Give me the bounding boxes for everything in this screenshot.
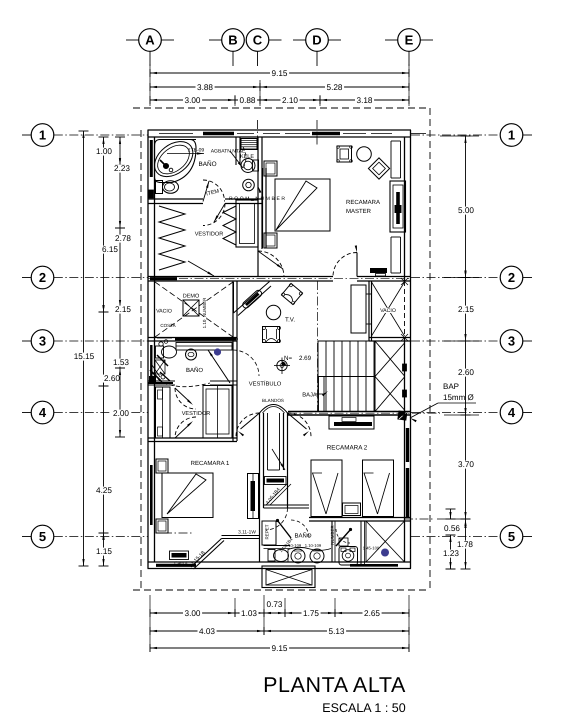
- master bed fold: [276, 181, 317, 230]
- bottom wall inner: [148, 561, 412, 563]
- recamara1 dresser by wall: [248, 474, 259, 519]
- svg-text:2.60: 2.60: [458, 368, 474, 377]
- svg-text:1.15: 1.15: [96, 547, 112, 556]
- svg-text:BAJA: BAJA: [302, 393, 317, 399]
- svg-text:2.69: 2.69: [299, 355, 312, 362]
- grid bubble 2 left: [31, 266, 54, 289]
- wall C axis (bath1 nook right): [257, 137, 259, 277]
- bottom wall window bar 2: [350, 564, 398, 567]
- grid bubble A: [139, 29, 162, 52]
- vestidor1 wardrobe box: [236, 200, 258, 247]
- bottom extension outer: [262, 566, 315, 588]
- bottom extension X: [266, 570, 312, 586]
- right dim row ticks: [440, 135, 479, 137]
- vacio-left X diag: [155, 282, 233, 337]
- top dim extension lines: [149, 64, 151, 106]
- vestidor2 dresser left: [156, 387, 171, 438]
- svg-text:1.78: 1.78: [457, 540, 473, 549]
- master door leaf: [356, 253, 358, 277]
- right wall window bars recamara2: [406, 428, 409, 462]
- bath3 door leaf 2: [336, 530, 351, 547]
- svg-text:D: D: [312, 33, 321, 48]
- svg-text:15mm Ø: 15mm Ø: [443, 393, 474, 402]
- master window right lower: [390, 237, 392, 273]
- grid bubble D: [306, 29, 329, 52]
- row axis 4 left line: [22, 412, 31, 414]
- svg-text:Cam 4: Cam 4: [174, 561, 188, 566]
- vestidor2 dresser right: [203, 386, 232, 439]
- left dim line 6.15 chain: [103, 137, 105, 312]
- row2 wall mid dashdot: [148, 278, 411, 280]
- svg-text:DAT: DAT: [345, 417, 353, 422]
- grid bubble 5 left: [31, 525, 54, 548]
- right dim text 1.23: [442, 550, 461, 558]
- master window right upper: [390, 141, 392, 178]
- recamara2 bed2 fold: [364, 473, 378, 514]
- svg-text:1.53: 1.53: [113, 358, 129, 367]
- svg-text:2.65: 2.65: [364, 609, 380, 618]
- svg-text:1.00: 1.00: [96, 147, 112, 156]
- arch header: [260, 405, 288, 414]
- svg-text:1.10-109: 1.10-109: [305, 543, 322, 548]
- demo box: [183, 300, 199, 316]
- svg-text:2.78: 2.78: [115, 234, 131, 243]
- svg-text:3.88: 3.88: [197, 83, 213, 92]
- left dim text 2.23: [113, 165, 132, 173]
- bath2 blue dot: [214, 348, 221, 355]
- recamara2 bed2: [363, 460, 394, 517]
- bathtub corner: [155, 140, 197, 183]
- left dim line 1.00 chain: [119, 137, 121, 165]
- shower box: [365, 521, 367, 562]
- recamara1 nightstand top: [156, 459, 168, 473]
- row5 aux dash-dot right: [437, 518, 462, 520]
- left wall window bar baño: [150, 140, 153, 177]
- dimension 1.75 bottom: [285, 612, 335, 614]
- right wall inner upper: [404, 137, 406, 281]
- bath3 door leaf: [278, 521, 292, 539]
- row4 wall (stairs bottom): [288, 411, 411, 413]
- tv corner unit: [233, 282, 235, 313]
- BAP drain box: [397, 410, 407, 420]
- master door arc: [333, 253, 357, 277]
- bath1 shower head mark: [149, 190, 154, 198]
- svg-text:NUMBER: NUMBER: [330, 525, 335, 545]
- right dim line 0.56/1.23: [450, 509, 452, 519]
- bottom dim extension lines: [149, 595, 151, 652]
- bath3 sink1: [291, 549, 305, 563]
- row2 wall inner: [148, 280, 333, 282]
- grid axis E tick lines: [408, 51, 410, 66]
- bath3 half wall: [264, 545, 291, 547]
- dimension 5.28 top: [260, 86, 409, 88]
- svg-text:1: 1: [39, 128, 46, 143]
- row axis 2 right line: [411, 277, 500, 279]
- wall bath2 bottom: [148, 380, 175, 382]
- dimension 3.88 top: [150, 86, 260, 88]
- svg-text:2.00: 2.00: [113, 409, 129, 418]
- right wall hinge marks stairs: [403, 364, 407, 371]
- vacio-right X: [372, 282, 405, 336]
- dimension 2.65 bottom: [335, 612, 409, 614]
- top wall window bar 2: [312, 132, 340, 135]
- right wall outer: [410, 130, 412, 569]
- svg-text:MASTER: MASTER: [346, 208, 372, 215]
- svg-text:ESCALA 1 : 50: ESCALA 1 : 50: [322, 701, 405, 715]
- svg-text:15.15: 15.15: [74, 352, 95, 361]
- svg-text:6.15: 6.15: [102, 245, 118, 254]
- master tv on wall: [370, 268, 387, 273]
- row axis 5 right line: [411, 536, 500, 538]
- minihall arrow down: [272, 449, 285, 470]
- svg-text:3: 3: [508, 334, 515, 349]
- row axis 3 left line: [22, 340, 31, 342]
- grid axis C tick lines: [257, 51, 259, 66]
- master chair diamond: [368, 158, 389, 179]
- BAP leader arrow: [410, 403, 438, 418]
- bottom wall window bar 1: [156, 564, 196, 567]
- left dim text 1.15: [95, 548, 114, 556]
- master dresser: [390, 181, 406, 232]
- top wall outer line: [148, 129, 412, 131]
- svg-text:3.00: 3.00: [185, 96, 201, 105]
- center wall lower (x262): [259, 413, 261, 562]
- recamara1 desk: [170, 551, 189, 560]
- grid bubble 4 left: [31, 401, 54, 424]
- wall bath1/vestidor (H1) right seg: [225, 198, 262, 200]
- master nightstand top: [264, 161, 277, 176]
- bath3 divider: [331, 521, 333, 562]
- left wall window bar recamara1: [150, 465, 153, 525]
- bath1 nook sink: [243, 179, 255, 191]
- grid bubble B: [222, 29, 245, 52]
- right dim text 3.70: [457, 461, 476, 469]
- vestidor1 closet zigzag left: [159, 206, 185, 270]
- svg-text:VESTÍBULO: VESTÍBULO: [249, 380, 282, 388]
- dimension 4.03 bottom: [150, 630, 264, 632]
- svg-text:3.00: 3.00: [185, 609, 201, 618]
- svg-text:2.10: 2.10: [282, 96, 298, 105]
- left dim text 1.53: [112, 359, 131, 367]
- right dim main line: [465, 136, 467, 278]
- right dim text 2.15: [457, 306, 476, 314]
- svg-text:5.00: 5.00: [458, 206, 474, 215]
- svg-text:0.56: 0.56: [444, 524, 460, 533]
- minihall door left: [236, 413, 260, 437]
- recamara2 bed1: [311, 460, 342, 517]
- bottom extension inner: [266, 570, 312, 586]
- washer: [339, 547, 358, 566]
- dimension 5.13 bottom: [264, 630, 409, 632]
- svg-text:BAÑO: BAÑO: [198, 160, 216, 168]
- svg-text:2.23: 2.23: [114, 164, 130, 173]
- svg-text:1.75: 1.75: [303, 609, 319, 618]
- row axis 3 right line: [411, 340, 500, 342]
- row axis 1 left line: [22, 134, 31, 136]
- bath2 misc pipes: [159, 342, 163, 346]
- svg-text:9.15: 9.15: [272, 69, 288, 78]
- tv table circle: [266, 305, 280, 319]
- grid bubble 1 right: [500, 124, 523, 147]
- svg-text:4.03: 4.03: [199, 627, 215, 636]
- recamara2 nightstand: [343, 503, 361, 516]
- bath2 door arc: [233, 350, 259, 376]
- svg-text:5.28: 5.28: [327, 83, 343, 92]
- grid axis B tick lines: [232, 51, 234, 66]
- left wall inner: [154, 137, 156, 562]
- grid bubble 3 left: [31, 330, 54, 353]
- dimension 1.03 bottom: [235, 612, 264, 614]
- master chair sq: [337, 146, 352, 162]
- dimension 0.88 top: [235, 99, 260, 101]
- vestidor1 door leaf: [258, 251, 283, 269]
- grid axis D tick lines: [316, 51, 318, 66]
- bathtub faucet: [163, 163, 168, 168]
- dimension 3.18 top: [320, 99, 409, 101]
- svg-text:T.V.: T.V.: [285, 317, 295, 324]
- svg-text:5.13: 5.13: [329, 627, 345, 636]
- svg-text:KELE: KELE: [240, 154, 254, 160]
- svg-text:VESTIDOR: VESTIDOR: [195, 232, 224, 238]
- wall bath1/vestidor (H1) left seg: [148, 198, 203, 200]
- row axis 2 left line: [22, 277, 31, 279]
- bath1 toilet tank: [156, 181, 163, 194]
- row3 wall right (vacio2 bottom): [369, 337, 411, 339]
- recamara2 bottom wall: [309, 517, 411, 519]
- stairs mid rail: [318, 376, 375, 378]
- bath1 towel arrow: [167, 153, 204, 155]
- recamara1 soffit diagonal: [191, 539, 222, 568]
- top wall mid window segs: [159, 133, 193, 135]
- svg-text:BLANDOS: BLANDOS: [262, 398, 284, 403]
- svg-text:RECAMARA 2: RECAMARA 2: [327, 445, 368, 452]
- bath3 door arc: [266, 508, 288, 530]
- svg-text:COSTA: COSTA: [160, 323, 175, 328]
- svg-text:0.88: 0.88: [240, 96, 256, 105]
- axis D dash-dot vestibule: [317, 281, 319, 411]
- dimension 9.15 bottom: [150, 647, 409, 649]
- bath2 toilet: [156, 346, 164, 358]
- right dim text 1.78: [456, 541, 475, 549]
- grid bubble 3 right: [500, 330, 523, 353]
- grid bubble E: [398, 29, 421, 52]
- svg-text:5: 5: [508, 529, 515, 544]
- svg-text:E: E: [405, 33, 414, 48]
- svg-text:2.15: 2.15: [115, 305, 131, 314]
- top wall window bar 1: [203, 132, 234, 135]
- svg-text:RECAMARA: RECAMARA: [346, 199, 380, 206]
- wall bath2 right: [232, 341, 234, 385]
- row axis 4 right line: [411, 412, 500, 414]
- svg-text:3.70: 3.70: [458, 460, 474, 469]
- svg-text:A: A: [145, 33, 155, 48]
- bath1 toilet bowl: [163, 181, 179, 194]
- svg-text:0.73: 0.73: [267, 600, 283, 609]
- left dim text 2.78: [114, 235, 133, 243]
- bath3 toilet: [268, 550, 275, 562]
- svg-text:VACIO: VACIO: [380, 308, 396, 314]
- recamara2 desk: [329, 416, 374, 429]
- svg-text:5: 5: [39, 529, 46, 544]
- row3 wall stub near TV: [225, 338, 238, 340]
- svg-text:1.03: 1.03: [241, 609, 257, 618]
- left dim text 2.15: [114, 306, 133, 314]
- row4 wall mid dashdot: [288, 412, 440, 414]
- property line bottom (dashed): [133, 589, 430, 591]
- axis D centerline stub: [316, 120, 318, 145]
- bath1 door leaf+arc: [203, 181, 209, 202]
- left dim text 6.15: [101, 246, 120, 254]
- property line right (dashed): [429, 108, 431, 590]
- svg-text:1.10_NUMBER: 1.10_NUMBER: [202, 297, 207, 329]
- left dim line 15.15: [83, 131, 85, 566]
- svg-text:9.15: 9.15: [272, 644, 288, 653]
- svg-text:RECAMARA 1: RECAMARA 1: [191, 460, 230, 467]
- minihall duct: [267, 413, 269, 470]
- right wall inner lower: [404, 338, 406, 562]
- property line top (dashed): [133, 107, 430, 109]
- svg-text:REPET: REPET: [265, 524, 270, 539]
- svg-text:C: C: [253, 33, 263, 48]
- vacio-right corner ticks: [401, 278, 408, 285]
- right dim text 2.60: [457, 369, 476, 377]
- tv set: [241, 289, 262, 309]
- bath2 shower curtain curve: [158, 379, 210, 387]
- master nightstand bottom: [264, 233, 277, 248]
- vestidor1 closet zigzag right: [223, 206, 236, 245]
- left dim text 2.00: [112, 410, 131, 418]
- wall vacio-right left side: [368, 281, 370, 341]
- svg-text:4.25: 4.25: [96, 486, 112, 495]
- svg-text:ROOM_NUMBER: ROOM_NUMBER: [229, 196, 287, 202]
- right dim text 5.00: [457, 207, 476, 215]
- svg-text:BAP: BAP: [443, 382, 459, 391]
- north symbol: [277, 360, 287, 370]
- wall B axis nook left: [235, 137, 237, 165]
- bath3 entry diagonals: [266, 484, 287, 505]
- svg-text:VESTIDOR: VESTIDOR: [182, 411, 211, 417]
- property line left (dashed): [140, 130, 142, 590]
- tv armchair bottom: [263, 327, 280, 343]
- stairs box top line: [318, 340, 369, 342]
- tv armchair top: [281, 283, 303, 305]
- svg-text:2: 2: [508, 270, 515, 285]
- recamara2 bed1 fold: [313, 473, 327, 514]
- bath1 nook door diag: [230, 151, 243, 168]
- bath3 soap box: [339, 538, 348, 546]
- stairs cabinet: [351, 285, 366, 333]
- right wall inner dashed vacio: [404, 281, 406, 338]
- svg-text:1TB-09: 1TB-09: [188, 148, 205, 154]
- cam2 desk: [265, 477, 287, 485]
- wall vestidor2 right: [232, 385, 234, 441]
- recamara1 soffit wall: [222, 535, 260, 537]
- grid bubble 4 right: [500, 401, 523, 424]
- recamara1 bed fold: [167, 474, 206, 514]
- row5 dash-dot segment right: [404, 518, 435, 520]
- svg-text:1.23: 1.23: [443, 549, 459, 558]
- bath2 door leaf: [208, 350, 230, 383]
- bath3 sink2: [310, 549, 324, 563]
- dimension 0.73 bottom: [264, 612, 285, 614]
- vestidor2 door lower: [175, 417, 196, 438]
- stairs left rail: [317, 341, 319, 412]
- bath2 counter: [176, 343, 232, 351]
- grid bubble 5 right: [500, 525, 523, 548]
- svg-text:BAÑO: BAÑO: [186, 366, 203, 374]
- row3 wall left (bath2 top): [148, 337, 237, 339]
- svg-text:VACIO: VACIO: [156, 309, 172, 315]
- recamara1 bed: [162, 473, 213, 518]
- dimension 2.10 top: [260, 99, 320, 101]
- vestidor2 door upper: [175, 388, 196, 409]
- wall vestidor2 bottom: [148, 437, 237, 439]
- right dim text 0.56: [443, 525, 462, 533]
- svg-text:3: 3: [39, 334, 46, 349]
- stairs landing diagonals: [375, 343, 405, 377]
- bath1 nook toilet: [241, 159, 255, 173]
- row2 wall outer: [148, 276, 333, 278]
- svg-text:4: 4: [39, 405, 47, 420]
- bottom wall outer: [148, 568, 412, 570]
- master bed headboard: [262, 168, 264, 248]
- grid axis A tick lines: [149, 51, 151, 66]
- svg-text:2: 2: [39, 270, 46, 285]
- svg-text:2.15: 2.15: [458, 305, 474, 314]
- bath2 sink: [186, 349, 197, 360]
- left dim text 1.00: [95, 148, 114, 156]
- dimension 3.00 top: [150, 99, 235, 101]
- vestidor1 exit arrow: [188, 261, 214, 276]
- svg-text:N=: N=: [284, 355, 292, 362]
- recamara1 nightstand bottom: [156, 519, 168, 533]
- washer divider: [360, 521, 362, 566]
- shower blue dot: [381, 549, 389, 557]
- left wall window bar bath2: [150, 345, 152, 380]
- grid bubble 1 left: [31, 124, 54, 147]
- left dim text 2.60: [103, 375, 122, 383]
- row5 dash-dot segment recamara1: [163, 532, 192, 534]
- bath1 door arc lower: [203, 204, 225, 226]
- row axis 1 right line: [411, 134, 500, 136]
- axis C centerline stub: [257, 120, 259, 145]
- row2 wall window bar: [150, 277, 177, 280]
- stairs treads: [325, 341, 327, 412]
- bath3 left cabinet: [262, 521, 276, 545]
- svg-text:DEMO: DEMO: [183, 294, 200, 300]
- svg-text:3.18: 3.18: [357, 96, 373, 105]
- svg-text:B: B: [228, 33, 237, 48]
- minihall right wall: [283, 413, 285, 470]
- bath3 left top wall: [264, 504, 310, 506]
- svg-text:3.11-1W: 3.11-1W: [238, 530, 256, 536]
- bath3 counter: [288, 547, 331, 550]
- stairs landing vertical: [374, 341, 376, 412]
- grid bubble 2 right: [500, 266, 523, 289]
- left wall outer: [147, 130, 149, 569]
- svg-text:2.60: 2.60: [104, 374, 120, 383]
- wall vacio-left right side: [232, 281, 234, 341]
- row axis 5 left line: [22, 536, 31, 538]
- bath2 fixtures dark: [155, 360, 165, 374]
- left dim text 4.25: [95, 487, 114, 495]
- bathtub inner oval: [148, 134, 200, 183]
- svg-text:PLANTA ALTA: PLANTA ALTA: [263, 673, 406, 697]
- dimension 9.15 top: [150, 72, 409, 74]
- dimension 3.00 bottom: [150, 612, 235, 614]
- vacio-right text: [380, 308, 396, 313]
- top wall inner line: [148, 136, 412, 138]
